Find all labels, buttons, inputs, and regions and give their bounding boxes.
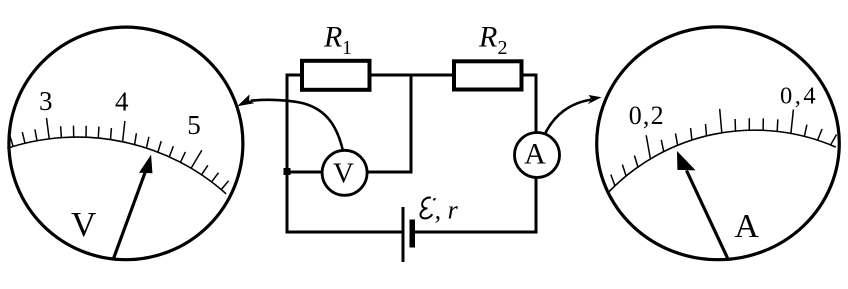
svg-text:4: 4 <box>115 86 129 116</box>
svg-text:R: R <box>478 20 497 53</box>
svg-text:A: A <box>734 208 759 245</box>
wire right vertical through ammeter <box>535 75 538 234</box>
wire R2 to right corner <box>521 74 538 77</box>
ammeter needle <box>678 152 728 258</box>
ammeter dial (right magnified meter face) <box>597 27 840 260</box>
svg-text:2: 2 <box>498 37 508 59</box>
wire voltmeter left lead <box>287 171 345 174</box>
scale arc <box>609 130 836 192</box>
svg-text:0,4: 0,4 <box>780 82 818 109</box>
voltmeter needle <box>114 156 152 258</box>
svg-text:5: 5 <box>187 110 201 140</box>
voltmeter V in circuit <box>322 150 367 195</box>
dial rim circle <box>597 27 840 260</box>
svg-text:1: 1 <box>342 37 352 59</box>
circuit wires <box>286 74 538 234</box>
svg-text:A: A <box>524 138 546 171</box>
wire battery to bottom right corner <box>415 231 536 234</box>
voltmeter dial (left magnified meter face) <box>7 27 243 260</box>
wire left vertical <box>286 74 289 233</box>
wire branch to voltmeter right side <box>345 171 413 174</box>
node junction dot on left wire <box>284 168 291 175</box>
callout arrow from ammeter to right dial <box>545 100 591 134</box>
wire bottom left to battery <box>286 231 404 234</box>
resistor R2 <box>454 61 522 89</box>
callout arrow from voltmeter to left dial <box>251 100 344 151</box>
svg-text:3: 3 <box>39 86 53 116</box>
wire junction branch down from node between R1 and R2 <box>410 75 413 172</box>
svg-text:R: R <box>323 20 342 53</box>
svg-text:V: V <box>333 158 354 190</box>
svg-text:V: V <box>71 205 96 244</box>
scale ticks <box>10 118 229 190</box>
svg-text:, r: , r <box>435 195 459 224</box>
battery label script E (EMF) <box>420 198 432 219</box>
wire top left segment <box>287 74 302 77</box>
scale arc <box>7 137 226 194</box>
wire between R1 and R2 <box>370 74 455 77</box>
scale ticks <box>611 109 837 186</box>
battery long plate <box>402 207 405 262</box>
svg-text:0,2: 0,2 <box>629 101 665 130</box>
ammeter A in circuit <box>515 133 560 178</box>
resistor R1 <box>302 61 370 90</box>
battery short thick plate <box>410 220 416 248</box>
dial rim circle <box>9 27 243 260</box>
